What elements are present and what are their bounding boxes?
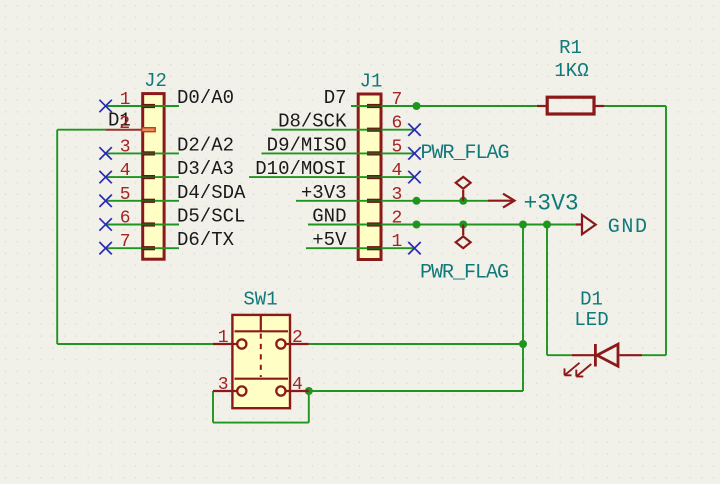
wire net D1 horizontal to SW1 pin1 [57,343,213,345]
svg-text:6: 6 [120,209,131,229]
no-connect J2 pin6 [99,218,111,230]
LED D1 [572,344,642,367]
LED emission arrow 1 [565,363,580,376]
svg-text:R1: R1 [559,37,582,59]
junction GND at PWR_FLAG [459,221,467,229]
no-connect J1 pin4 [408,171,420,183]
svg-text:2: 2 [119,114,130,134]
no-connect J2 pin4 [99,171,111,183]
svg-text:5: 5 [120,185,131,205]
J1 pin 1 contact [367,246,382,250]
svg-text:D3/A3: D3/A3 [177,158,234,180]
svg-text:J2: J2 [144,70,167,92]
J1 pin 5 contact [367,151,382,155]
no-connect J2 pin1 [99,100,111,112]
wire J1 pin6 stub D8/SCK [272,129,415,131]
svg-text:PWR_FLAG: PWR_FLAG [421,142,509,165]
svg-text:7: 7 [392,90,403,110]
wire J2 pin5 stub [106,200,179,202]
wire J1 pin1 stub +5V [306,247,415,249]
wire right vertical to LED [665,106,667,355]
J1 pin 2 contact [367,222,382,226]
svg-text:SW1: SW1 [243,289,277,311]
J2 pin 2 contact highlighted [142,128,156,132]
J2 pin 7 contact [141,246,155,250]
wire SW1 loop bottom [213,422,309,424]
svg-text:D7: D7 [324,87,347,109]
resistor R1 [537,97,605,114]
junction GND drop1 [519,221,527,229]
wire SW1 pin2 to GND drop [309,343,523,345]
LED emission arrow 2 [576,364,591,377]
power flag PWR_FLAG bottom [456,225,471,249]
SW1 pin 4 lead [286,390,309,392]
svg-text:4: 4 [392,161,403,181]
SW1 pin 1 lead [213,343,237,345]
wire segment highlighted at J2 pin2 [106,129,142,131]
svg-text:D9/MISO: D9/MISO [267,134,347,156]
no-connect J2 pin3 [99,147,111,159]
svg-text:+5V: +5V [312,229,347,251]
svg-text:1: 1 [218,328,229,348]
no-connect J1 pin6 [408,124,420,136]
wire net GND [308,224,576,226]
svg-text:GND: GND [608,216,649,239]
svg-text:D1: D1 [580,289,603,311]
wire LED left lead green [547,354,572,356]
wire net D1 vertical left [56,130,58,344]
J2 pin 5 contact [141,199,155,203]
junction GND drop2 [543,221,551,229]
J1 pin 7 contact [367,104,382,108]
wire J1 pin7 to R1 [351,105,537,107]
no-connect J1 pin1 [408,242,420,254]
svg-text:PWR_FLAG: PWR_FLAG [420,261,508,284]
svg-text:3: 3 [392,185,403,205]
junction J1 pin7 node [413,102,421,110]
switch SW1 body [232,315,290,408]
no-connect J2 pin5 [99,195,111,207]
wire J2 pin4 stub [106,176,179,178]
no-connect J2 pin7 [99,242,111,254]
svg-text:D4/SDA: D4/SDA [177,182,246,204]
svg-text:3: 3 [218,375,229,395]
J2 pin 1 contact [141,104,155,108]
junction SW1 pin4 node [305,387,313,395]
power symbol +3V3 arrow [488,194,515,208]
svg-text:2: 2 [292,328,303,348]
power symbol GND [576,215,596,234]
wire SW1 pin3 loop down [212,391,214,423]
svg-text:2: 2 [392,209,403,229]
svg-text:D6/TX: D6/TX [177,229,235,251]
wire J2 pin6 stub [106,224,179,226]
power flag PWR_FLAG top [456,177,471,201]
J1 pin 3 contact [367,199,382,203]
junction +3V3 at pin3 [413,197,421,205]
wire net +3V3 [296,200,488,202]
wire J2 pin1 stub [106,105,179,107]
J1 pin 4 contact [367,175,382,179]
connector J1 body [358,94,381,260]
J2 pin 3 contact [141,151,155,155]
svg-text:D2/A2: D2/A2 [177,134,234,156]
wire J1 pin4 stub D10/MOSI [249,176,415,178]
wire net D1 from J2 pin2 to left [57,129,105,131]
J2 pin 4 contact [141,175,155,179]
svg-text:5: 5 [392,137,403,157]
wire J2 pin3 stub [106,152,179,154]
svg-text:D10/MOSI: D10/MOSI [255,158,346,180]
junction +3V3 at PWR_FLAG [459,197,467,205]
wire SW1 loop up to pin4 [308,391,310,423]
svg-text:D5/SCL: D5/SCL [177,206,245,228]
svg-text:D8/SCK: D8/SCK [278,111,347,133]
svg-text:LED: LED [574,309,608,331]
svg-text:1: 1 [120,90,131,110]
no-connect J1 pin5 [408,147,420,159]
svg-text:D0/A0: D0/A0 [177,87,234,109]
SW1 pin 2 lead [286,343,309,345]
svg-text:+3V3: +3V3 [524,191,579,217]
svg-text:J1: J1 [360,71,383,93]
wire GND drop to SW wires [522,225,524,392]
svg-text:7: 7 [120,232,131,252]
svg-text:6: 6 [392,114,403,134]
wire LED right lead [642,354,666,356]
wire J2 pin7 stub [106,247,179,249]
junction GND at pin2 [413,221,421,229]
J2 pin 6 contact [141,222,155,226]
svg-text:+3V3: +3V3 [301,182,347,204]
svg-text:GND: GND [312,206,346,228]
wire J1 pin5 stub D9/MISO [262,152,415,154]
svg-text:1: 1 [392,232,403,252]
svg-text:3: 3 [120,137,131,157]
svg-text:1KΩ: 1KΩ [554,60,588,82]
J1 pin 6 contact [367,128,382,132]
svg-text:4: 4 [292,375,303,395]
svg-text:4: 4 [120,161,131,181]
wire R1 to right corner [604,105,666,107]
wire GND drop to LED [546,225,548,356]
junction SW1 pin2 node [519,340,527,348]
SW1 internal contacts [235,315,289,396]
SW1 pin 3 lead [213,390,237,392]
connector J2 body [143,94,164,260]
wire SW1 pin4 to GND drop [309,390,523,392]
